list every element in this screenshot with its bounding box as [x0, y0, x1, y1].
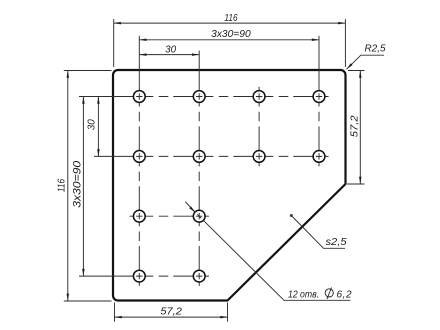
extension line row4 left [79, 275, 114, 277]
extension line top-left corner [113, 19, 115, 67]
svg-text:6,2: 6,2 [337, 290, 352, 301]
centerline row 2 [113, 155, 328, 157]
centerline col 1 [138, 67, 140, 286]
extension line col1 above plate [138, 36, 140, 67]
dimension line 3x30=90 left [82, 97, 84, 277]
svg-text:30: 30 [87, 119, 98, 130]
centerline col 4 [318, 67, 320, 167]
arrows dim 57,2 bottom [115, 316, 122, 319]
arrows dim 3x30=90 top [139, 39, 146, 42]
hole r1c4 [313, 91, 325, 103]
centerline row 3 [130, 215, 210, 217]
arrows dim 57,2 right [359, 71, 362, 78]
svg-text:3x30=90: 3x30=90 [211, 29, 251, 40]
hole r4c1 [133, 270, 145, 282]
extension line left bottom edge [64, 300, 112, 302]
dimension line 30 left [97, 97, 99, 157]
hole r4c2 [193, 270, 205, 282]
hole r2c4 [313, 151, 325, 163]
extension line left top edge [64, 70, 112, 72]
extension line right chamfer start [347, 183, 365, 185]
extension line row1 left [79, 96, 114, 98]
diameter symbol [325, 288, 333, 300]
leader R2,5 [347, 55, 385, 69]
svg-text:57,2: 57,2 [350, 115, 361, 137]
centerline col 3 [258, 87, 260, 167]
extension line right top [348, 70, 365, 72]
svg-text:116: 116 [56, 179, 67, 193]
svg-text:s2,5: s2,5 [326, 237, 347, 248]
svg-text:116: 116 [224, 13, 238, 24]
svg-text:57,2: 57,2 [160, 306, 182, 317]
svg-text:3x30=90: 3x30=90 [71, 160, 83, 208]
arrows dim 30 left [97, 97, 100, 104]
hole r2c1 [133, 151, 145, 163]
dimension line 30 top [139, 54, 199, 56]
extension line col2 above plate [198, 51, 200, 67]
svg-text:12 отв.: 12 отв. [288, 290, 319, 301]
dimension line 57,2 right [359, 71, 361, 185]
dimension line 116 left [67, 71, 69, 301]
hole r1c2 [193, 91, 205, 103]
arrow leader R2,5 [347, 63, 353, 69]
hole r1c1 [133, 91, 145, 103]
svg-text:30: 30 [165, 44, 176, 55]
hole center-mark gaps [134, 91, 324, 281]
arrows dim 30 top [139, 53, 146, 56]
leader 12 holes [185, 202, 350, 301]
hole r3c1 [133, 210, 145, 222]
leader s2,5 [291, 216, 345, 249]
arrows dim 116 top [114, 22, 121, 25]
centerline col 2 [198, 67, 200, 286]
extension line top-right corner [344, 19, 346, 67]
arrows dim 3x30=90 left [82, 97, 85, 104]
svg-text:R2,5: R2,5 [365, 43, 386, 54]
arrows dim 116 left [67, 71, 70, 78]
hole r3c2 [193, 210, 205, 222]
extension line row2 left [94, 155, 114, 157]
extension line bottom left [114, 303, 116, 322]
dimension line 57,2 bottom [115, 316, 228, 318]
hole r2c3 [253, 151, 265, 163]
dimension line 3x30=90 top [139, 39, 319, 41]
centerline row 4 [113, 275, 209, 277]
hole r2c2 [193, 151, 205, 163]
arrow leader 12 holes [189, 206, 195, 212]
hole r1c3 [253, 91, 265, 103]
dimension line 116 top [114, 22, 346, 24]
centerline row 1 [113, 96, 328, 98]
extension line bottom chamfer end [227, 303, 229, 322]
extension line col4 above plate [318, 36, 320, 67]
plate outline [113, 70, 346, 301]
